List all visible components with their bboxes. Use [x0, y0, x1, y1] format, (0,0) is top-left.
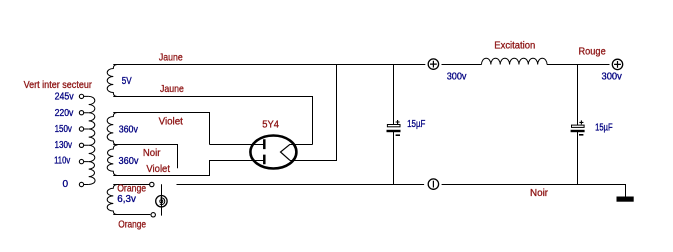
svg-text:245v: 245v: [55, 92, 74, 103]
svg-text:110v: 110v: [54, 156, 70, 167]
svg-text:5V: 5V: [122, 76, 132, 87]
svg-text:Jaune: Jaune: [160, 84, 184, 95]
svg-text:Excitation: Excitation: [494, 41, 535, 52]
svg-text:360v: 360v: [119, 156, 139, 167]
svg-text:Orange: Orange: [118, 220, 146, 231]
svg-text:150v: 150v: [55, 124, 72, 135]
svg-text:130v: 130v: [55, 140, 73, 151]
svg-text:Jaune: Jaune: [159, 52, 183, 63]
svg-text:360v: 360v: [119, 125, 138, 136]
svg-text:6,3v: 6,3v: [117, 194, 136, 205]
svg-text:5Y4: 5Y4: [262, 120, 279, 131]
svg-text:15µF: 15µF: [595, 122, 613, 133]
svg-text:Rouge: Rouge: [579, 47, 607, 58]
svg-text:Noir: Noir: [530, 188, 549, 199]
svg-text:Violet: Violet: [159, 117, 184, 128]
svg-text:15µF: 15µF: [407, 119, 425, 130]
svg-text:Violet: Violet: [146, 164, 170, 175]
svg-text:300v: 300v: [602, 72, 622, 83]
svg-text:300v: 300v: [447, 72, 467, 83]
svg-text:0: 0: [63, 179, 69, 190]
svg-text:Orange: Orange: [117, 183, 146, 194]
svg-text:Vert inter secteur: Vert inter secteur: [24, 80, 93, 91]
svg-text:Noir: Noir: [143, 148, 161, 159]
svg-text:220v: 220v: [55, 108, 74, 119]
